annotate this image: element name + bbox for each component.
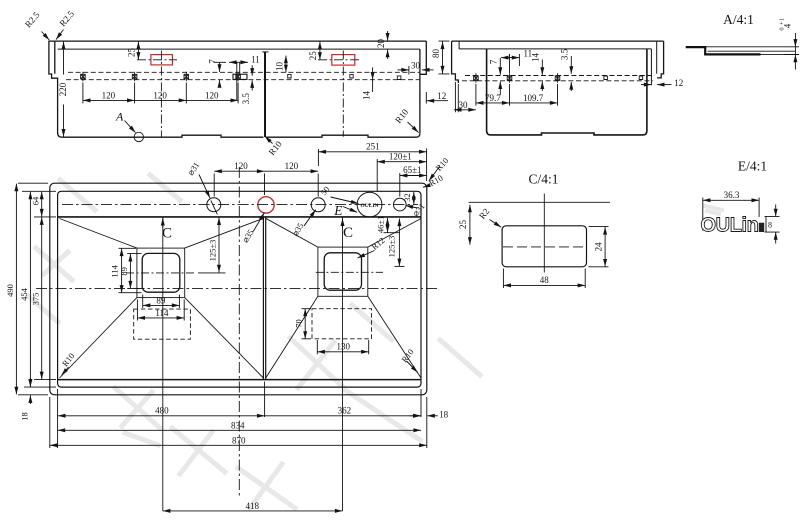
- svg-text:30: 30: [459, 100, 469, 110]
- dim 8: [765, 205, 780, 244]
- svg-text:125±3: 125±3: [387, 236, 397, 258]
- top edge: [452, 40, 664, 42]
- svg-text:109.7: 109.7: [523, 93, 544, 103]
- ledge bottom line (bowl top edge): [58, 216, 421, 218]
- svg-text:70: 70: [293, 319, 303, 328]
- svg-text:46±1: 46±1: [376, 216, 386, 233]
- svg-text:30: 30: [411, 60, 421, 70]
- logo dot: [759, 223, 764, 232]
- R10 bottom-right corner: [407, 361, 418, 373]
- 870 row: [50, 444, 427, 446]
- red highlight rect 1: [151, 55, 355, 66]
- watermark strokes: [28, 175, 722, 508]
- body top edge: [55, 40, 427, 42]
- svg-text:8: 8: [768, 221, 772, 230]
- right end rim walls: [419, 49, 421, 133]
- svg-text:130: 130: [337, 341, 351, 351]
- dim 14 rsv: [541, 60, 543, 75]
- right bowl slope diagonals: [266, 218, 421, 378]
- svg-text:870: 870: [232, 435, 246, 445]
- dim 48: [503, 269, 585, 289]
- svg-text:251: 251: [366, 142, 380, 152]
- body inner top line: [58, 48, 420, 50]
- dim 25 left: [137, 42, 139, 60]
- dim 4 +1/0: [783, 33, 799, 70]
- svg-text:20: 20: [376, 39, 386, 49]
- svg-text:454: 454: [19, 287, 29, 301]
- left bowl slope diagonals: [60, 218, 264, 378]
- svg-text:7: 7: [488, 59, 498, 64]
- svg-text:48: 48: [540, 275, 550, 285]
- 480 / 362 row: [58, 415, 265, 417]
- detail A marker: [115, 110, 144, 142]
- right rim outline: [657, 41, 664, 78]
- dim 251: [318, 149, 426, 182]
- RSV texts: [431, 48, 684, 110]
- svg-text:3.5: 3.5: [560, 48, 570, 60]
- svg-text:120: 120: [205, 90, 219, 100]
- svg-text:125±3: 125±3: [207, 240, 217, 262]
- svg-text:18: 18: [19, 412, 29, 421]
- dim 7 rsv: [499, 58, 501, 75]
- dim 12 rsv right: [641, 84, 651, 86]
- svg-text:120: 120: [153, 90, 167, 100]
- dim 125±3 right: [395, 219, 405, 267]
- dim 25 right: [319, 42, 321, 60]
- hole labels with leaders: [199, 167, 440, 232]
- TLV texts: [23, 8, 446, 104]
- svg-text:79.7: 79.7: [485, 93, 501, 103]
- svg-text:834: 834: [231, 420, 245, 430]
- bowl divider double line: [263, 217, 265, 380]
- svg-text:10: 10: [275, 62, 285, 72]
- hidden dashed lines: [68, 71, 420, 73]
- svg-text:114: 114: [155, 308, 169, 318]
- dim 12 right end: [427, 100, 448, 102]
- left drain dims 89h / 114h: [137, 295, 184, 321]
- right dashed rect dims 70 / 130: [302, 309, 369, 355]
- svg-text:490: 490: [5, 284, 15, 297]
- leader R2.5 lines: [42, 30, 64, 41]
- R2 leader: [490, 220, 502, 228]
- dim 79.7 / 109.7: [476, 102, 510, 104]
- svg-text:25: 25: [127, 48, 137, 58]
- red circle highlight on hole 2: [258, 197, 274, 213]
- dashed centerline: [503, 246, 586, 248]
- svg-text:0: 0: [779, 27, 786, 30]
- left drain flange square: [137, 248, 185, 298]
- right drain inner rounded square: [324, 253, 361, 290]
- svg-text:C/4:1: C/4:1: [528, 172, 558, 187]
- rounded rect: [502, 226, 586, 267]
- dim 10: [285, 56, 287, 73]
- left drain inner rounded square: [142, 253, 180, 292]
- svg-text:C: C: [162, 225, 172, 241]
- svg-text:65±1: 65±1: [403, 165, 421, 175]
- bowl bottom edge: [58, 379, 421, 381]
- dim 3.5 rsv: [570, 56, 572, 74]
- left drain dims 114v / 89v: [119, 248, 142, 292]
- section C lines: [163, 218, 343, 512]
- svg-text:89: 89: [119, 267, 129, 276]
- dim 220: [63, 42, 65, 75]
- svg-text:120: 120: [285, 161, 299, 171]
- 834 row: [58, 429, 421, 431]
- sheet thin lines: [705, 47, 795, 55]
- leader R10 divider bottom: [265, 122, 419, 144]
- stud cross markers: [81, 72, 401, 81]
- svg-text:120: 120: [234, 161, 248, 171]
- dim 120 row: [83, 99, 135, 101]
- dim 7: [219, 63, 221, 72]
- hidden dashed lines: [465, 75, 652, 77]
- inner rect: [58, 191, 421, 387]
- top extension line: [469, 201, 610, 203]
- red highlight rect 2: [332, 55, 355, 66]
- faucet holes row: [207, 192, 406, 217]
- svg-text:375: 375: [31, 293, 41, 306]
- dim 65±1: [400, 173, 427, 197]
- svg-text:12: 12: [437, 91, 446, 101]
- dim 30 rsv: [454, 109, 476, 111]
- svg-text:14: 14: [531, 53, 541, 63]
- bottom dims: [50, 382, 438, 511]
- right dashed rect below drain: [312, 309, 372, 339]
- svg-text:36.3: 36.3: [724, 190, 740, 200]
- svg-text:120±1: 120±1: [389, 152, 412, 162]
- dim 30 right end: [398, 69, 409, 71]
- vertical centerline: [543, 194, 545, 273]
- svg-text:25: 25: [308, 51, 318, 61]
- svg-text:C: C: [343, 225, 353, 241]
- svg-text:362: 362: [338, 406, 352, 416]
- dim 3.5: [251, 65, 253, 76]
- rim outline left: [452, 41, 459, 83]
- svg-text:A/4:1: A/4:1: [723, 12, 754, 27]
- dim 125±3 left: [198, 217, 226, 273]
- svg-text:89: 89: [156, 295, 166, 305]
- dim 14: [372, 67, 374, 79]
- svg-text:A: A: [115, 110, 124, 124]
- right drain flange square: [318, 247, 368, 296]
- svg-text:12: 12: [674, 78, 683, 88]
- svg-text:11: 11: [251, 54, 260, 64]
- dim 80: [442, 42, 444, 74]
- TLV dimensions: [64, 31, 449, 137]
- dim 11 rsv: [501, 57, 520, 59]
- dim 11: [229, 61, 248, 63]
- RSV dimensions: [439, 41, 672, 112]
- inner top line: [459, 41, 651, 49]
- outer rect: [50, 183, 427, 395]
- svg-text:3.5: 3.5: [241, 93, 251, 105]
- svg-text:18: 18: [439, 409, 449, 419]
- svg-text:24: 24: [594, 242, 604, 252]
- bowl outline: [487, 49, 647, 135]
- svg-text:14: 14: [361, 91, 371, 101]
- dim 25: [469, 205, 471, 245]
- svg-text:OULin: OULin: [701, 214, 759, 236]
- svg-text:OULIN: OULIN: [360, 203, 378, 209]
- sheet profile thick: [686, 47, 761, 54]
- dim 24: [589, 227, 609, 267]
- hole dim 120/120: [214, 171, 318, 196]
- small clip marks: [288, 75, 291, 78]
- dim 36.3: [703, 198, 759, 231]
- svg-text:64: 64: [31, 196, 41, 205]
- svg-text:25: 25: [458, 220, 468, 230]
- left dashed rect below drain: [134, 309, 191, 339]
- left side vertical dims 490/454/375/64/18: [16, 183, 56, 404]
- dim 46±1: [384, 218, 401, 233]
- R10 bottom-left corner: [62, 367, 69, 375]
- body bottom edge with notches: [62, 135, 263, 137]
- svg-text:+1: +1: [779, 18, 786, 25]
- centerlines: [36, 167, 440, 497]
- svg-text:480: 480: [155, 406, 169, 416]
- stud cross markers RSV: [474, 73, 643, 82]
- 18 right: [410, 415, 421, 417]
- dim 20: [387, 31, 389, 41]
- dim 120±1: [377, 159, 426, 191]
- R12 label right drain: [358, 251, 375, 259]
- svg-text:120: 120: [102, 90, 116, 100]
- svg-text:E: E: [333, 203, 343, 218]
- svg-text:220: 220: [58, 82, 68, 96]
- 418 row: [163, 510, 343, 512]
- svg-text:E/4:1: E/4:1: [738, 159, 767, 174]
- left tab outline: [49, 41, 62, 137]
- svg-text:80: 80: [431, 49, 441, 59]
- svg-text:418: 418: [246, 501, 260, 511]
- center dash-dot lines through red rects: [137, 51, 359, 137]
- center divider wall: [264, 52, 266, 137]
- svg-text:7: 7: [208, 59, 218, 64]
- svg-text:32: 32: [402, 193, 412, 202]
